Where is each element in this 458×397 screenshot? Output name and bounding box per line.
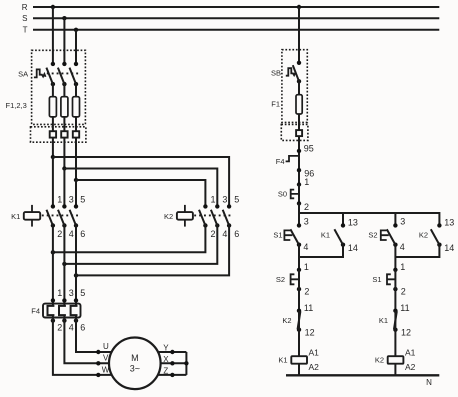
wire crossover L1 to K2 pin5 <box>53 157 229 206</box>
svg-text:A2: A2 <box>405 362 416 372</box>
switch SB manual actuator <box>286 68 296 76</box>
wire fuse column 1 <box>52 84 54 157</box>
node star point <box>184 361 188 365</box>
node crossover L1 <box>51 155 55 159</box>
contactor K1 pole 1 (pins 1-2) <box>47 195 63 240</box>
svg-text:SA: SA <box>18 69 28 78</box>
svg-text:2: 2 <box>304 202 309 212</box>
switch SB contact <box>293 61 301 84</box>
svg-text:F1: F1 <box>271 99 280 108</box>
svg-text:5: 5 <box>234 195 239 205</box>
svg-text:2: 2 <box>57 322 62 332</box>
svg-text:A1: A1 <box>405 348 416 358</box>
svg-text:12: 12 <box>305 328 315 338</box>
svg-text:2: 2 <box>304 287 309 297</box>
wire column1 to F4 <box>52 226 54 306</box>
fuse F1 element <box>49 97 56 117</box>
phase rail S <box>22 14 439 23</box>
svg-text:K1: K1 <box>379 316 388 325</box>
contactor K1 linkage <box>42 214 79 216</box>
contact K2 NC (11-12) <box>282 303 314 338</box>
svg-text:K2: K2 <box>164 212 173 221</box>
wire S1nc to K1nc <box>394 289 396 311</box>
contactor K2 pole 3 (pins 5-6) <box>223 195 240 240</box>
contact K2 aux (13-14) <box>419 218 455 253</box>
wire K2nc to coil K1 <box>298 330 300 357</box>
pushbutton S1 (NC interlock) <box>372 262 406 297</box>
node 96 <box>297 168 315 179</box>
svg-text:3~: 3~ <box>130 363 140 373</box>
overload F4 pin labels bottom <box>57 322 85 332</box>
svg-text:6: 6 <box>80 229 85 239</box>
node 2 S0 <box>297 201 309 212</box>
svg-text:Z: Z <box>163 367 168 376</box>
wire branch K1 aux drop <box>342 213 344 225</box>
terminal strip dotted box left <box>31 127 86 142</box>
enclosure SA/F1,2,3 dotted box <box>32 50 86 124</box>
svg-text:1: 1 <box>211 195 216 205</box>
wire SB to F1 <box>298 81 300 130</box>
svg-text:1: 1 <box>57 195 62 205</box>
contactor K1 pole 3 (pins 5-6) <box>70 195 86 240</box>
svg-text:S2: S2 <box>276 275 285 284</box>
svg-text:S1: S1 <box>372 275 381 284</box>
node motor Y <box>170 350 174 354</box>
pushbutton S0 <box>278 185 299 204</box>
overload F4 box <box>43 304 81 318</box>
motor M1 circle <box>109 338 161 390</box>
switch SA pole 3 <box>70 62 79 87</box>
wire motor X link <box>161 362 187 364</box>
svg-text:3: 3 <box>304 217 309 227</box>
svg-text:13: 13 <box>444 218 454 228</box>
svg-text:3: 3 <box>69 288 74 298</box>
switch SA linkage <box>47 72 79 74</box>
overload F4 pin dots top <box>51 298 79 302</box>
wire coil K2 to N <box>394 364 396 376</box>
svg-text:1: 1 <box>400 262 405 272</box>
svg-text:4: 4 <box>69 229 74 239</box>
svg-text:4: 4 <box>69 322 74 332</box>
svg-text:SB: SB <box>271 69 281 78</box>
wire motor Z link <box>159 374 187 376</box>
wire motor Y link <box>159 351 187 353</box>
svg-text:12: 12 <box>401 328 411 338</box>
svg-text:1: 1 <box>304 177 309 187</box>
wire control drop <box>298 7 300 63</box>
node crossover L2 <box>62 166 66 170</box>
wire branch S1 drop <box>298 213 300 225</box>
svg-text:5: 5 <box>80 195 85 205</box>
svg-text:K1: K1 <box>11 212 20 221</box>
node motor V <box>96 361 100 365</box>
wire K2 pin4 to column2 <box>64 226 217 264</box>
svg-text:6: 6 <box>80 322 85 332</box>
svg-text:U: U <box>103 342 109 351</box>
wire star bridge <box>185 352 187 375</box>
wire column2 to F4 <box>63 226 65 306</box>
wire K1 column 2 top <box>63 169 65 207</box>
overload contact F4 <box>276 156 299 166</box>
wire K1 aux merge <box>299 245 343 257</box>
wire control bus <box>299 203 439 225</box>
node motor X <box>170 361 174 365</box>
node motor U <box>96 350 100 354</box>
node crossover L3 <box>74 178 78 182</box>
node R tap left <box>51 5 55 9</box>
svg-text:S1: S1 <box>273 230 282 239</box>
svg-text:2: 2 <box>211 229 216 239</box>
node R tap control <box>297 5 301 9</box>
svg-text:5: 5 <box>80 288 85 298</box>
neutral rail N <box>286 375 439 387</box>
svg-text:F1,2,3: F1,2,3 <box>6 101 27 110</box>
wire F4 to motor U <box>76 315 112 352</box>
overload F4 heater 3 <box>71 306 78 315</box>
svg-text:13: 13 <box>348 218 358 228</box>
wire K2 pin2 to column1 <box>53 226 206 253</box>
wire phase L3 drop <box>75 30 77 64</box>
wire K2 pin6 to column3 <box>76 226 229 276</box>
wire phase L1 drop <box>52 7 54 64</box>
contact K1 NC (11-12) <box>379 303 411 338</box>
contactor K1 pole 2 (pins 3-4) <box>58 195 74 240</box>
wire S1 to S2nc <box>298 245 300 270</box>
wire K2 aux merge <box>395 245 439 257</box>
svg-text:14: 14 <box>348 243 358 253</box>
node motor Z <box>170 373 174 377</box>
terminal strip dotted box right <box>281 124 308 140</box>
wire S2nc to K2nc <box>298 289 300 311</box>
svg-text:K2: K2 <box>375 356 384 365</box>
pushbutton S2 (NO) <box>368 217 405 253</box>
node 95 <box>297 144 314 154</box>
switch SA pole 2 <box>58 62 67 87</box>
contactor K2 operator <box>177 205 193 227</box>
svg-text:T: T <box>23 26 28 35</box>
svg-text:M: M <box>131 353 139 363</box>
overload F4 pin dots bottom <box>51 318 79 322</box>
node merge column3 <box>74 273 78 277</box>
wire F4 to motor V <box>64 315 109 363</box>
wire S2 to S1nc <box>394 245 396 270</box>
node merge column1 <box>51 250 55 254</box>
svg-text:1: 1 <box>304 262 309 272</box>
overload F4 heater 1 <box>48 306 55 315</box>
svg-text:K2: K2 <box>282 316 291 325</box>
svg-text:F4: F4 <box>276 157 285 166</box>
svg-text:3: 3 <box>222 195 227 205</box>
svg-text:S: S <box>22 14 27 23</box>
svg-text:K1: K1 <box>278 356 287 365</box>
wire fuse column 2 <box>63 84 65 168</box>
switch SA pole 1 <box>46 62 55 87</box>
svg-text:6: 6 <box>234 229 239 239</box>
fuse F3 element <box>73 97 80 117</box>
svg-text:K1: K1 <box>321 230 330 239</box>
fuse F1 element <box>296 95 302 114</box>
contactor K1 operator <box>24 205 40 227</box>
contactor K2 pole 1 (pins 1-2) <box>199 195 216 240</box>
wire fuse column 3 <box>75 84 77 180</box>
svg-text:11: 11 <box>304 303 313 313</box>
coil K1 <box>278 348 319 372</box>
wire K1 column 3 top <box>75 180 77 206</box>
svg-text:A1: A1 <box>309 348 320 358</box>
svg-text:3: 3 <box>400 217 405 227</box>
pushbutton S2 (NC interlock) <box>276 262 310 297</box>
svg-text:2: 2 <box>57 229 62 239</box>
terminal square control <box>296 130 302 136</box>
svg-text:X: X <box>163 355 169 364</box>
terminal square 3 <box>73 131 79 137</box>
svg-text:2: 2 <box>401 287 406 297</box>
fuse F2 element <box>61 97 68 117</box>
wire coil K1 to N <box>298 364 300 376</box>
svg-text:N: N <box>426 378 432 387</box>
phase rail T <box>23 26 440 35</box>
wire crossover L2 to K2 pin3 <box>64 169 217 207</box>
coil K2 <box>375 348 416 372</box>
enclosure SB/F1 dotted box <box>282 50 307 123</box>
svg-text:95: 95 <box>304 144 314 154</box>
overload F4 heater 2 <box>59 306 66 315</box>
svg-text:K2: K2 <box>419 230 428 239</box>
wire phase L2 drop <box>63 18 65 64</box>
svg-text:Y: Y <box>163 343 169 352</box>
pushbutton S1 (NO) <box>273 217 309 253</box>
svg-text:F4: F4 <box>31 306 40 315</box>
node motor W <box>96 373 100 377</box>
svg-text:R: R <box>22 3 28 12</box>
contactor K2 pole 2 (pins 3-4) <box>211 195 228 240</box>
wire K1nc to coil K2 <box>394 330 396 357</box>
svg-text:1: 1 <box>57 288 62 298</box>
wire K1 column 1 top <box>52 157 54 206</box>
phase rail R <box>22 3 440 12</box>
svg-text:S0: S0 <box>278 189 287 198</box>
switch SA manual actuator <box>34 69 46 77</box>
node 1 S0 <box>297 177 310 187</box>
svg-text:3: 3 <box>69 195 74 205</box>
contact K1 aux (13-14) <box>321 218 358 253</box>
node merge column2 <box>62 262 66 266</box>
wire branch S2 drop <box>394 213 396 225</box>
terminal square 1 <box>50 131 56 137</box>
wire column3 to F4 <box>75 226 77 306</box>
svg-text:11: 11 <box>400 303 409 313</box>
wire crossover L3 to K2 pin1 <box>76 180 205 206</box>
svg-text:A2: A2 <box>309 362 320 372</box>
node T tap left <box>74 28 78 32</box>
terminal square 2 <box>61 131 67 137</box>
svg-text:4: 4 <box>303 242 308 252</box>
overload F4 pin labels top <box>57 288 85 298</box>
svg-text:4: 4 <box>222 229 227 239</box>
wire terminal to 95 <box>298 136 300 184</box>
contactor K2 linkage <box>194 214 231 216</box>
svg-text:14: 14 <box>444 243 454 253</box>
svg-text:S2: S2 <box>368 230 377 239</box>
wire F4 to motor W <box>53 315 112 375</box>
svg-text:4: 4 <box>400 242 405 252</box>
node S tap left <box>62 16 66 20</box>
